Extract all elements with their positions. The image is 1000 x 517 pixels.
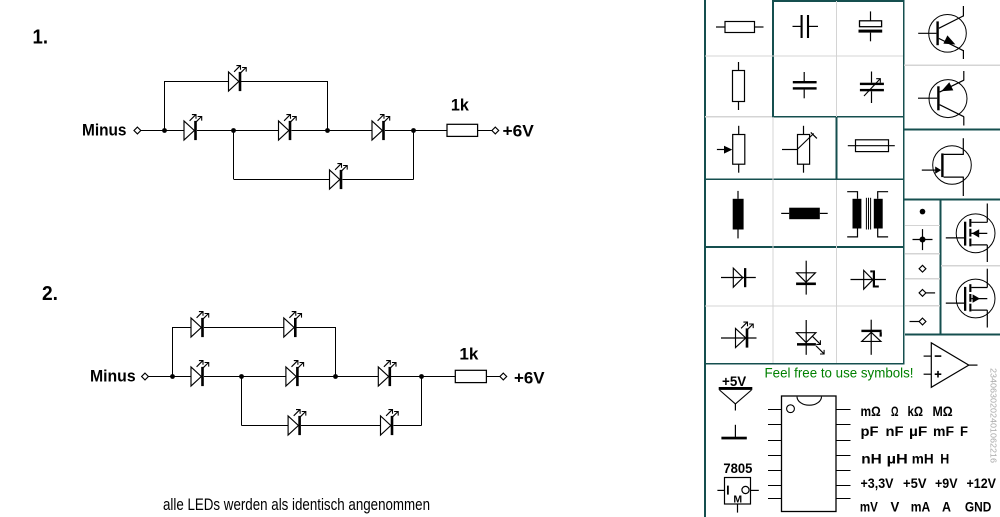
wire node A to LED D2 (165, 130, 185, 132)
node dot symbol (palette small column) (920, 209, 926, 215)
wire top branch segment 1 (173, 327, 192, 329)
svg-text:+5V: +5V (903, 475, 927, 491)
MOSFET N-channel (palette) (946, 204, 995, 263)
svg-text:pF: pF (861, 423, 879, 439)
svg-text:F: F (960, 423, 968, 439)
resistor symbol vertical (palette r2c1) (733, 62, 745, 110)
wire LED D9 to node G (299, 376, 379, 378)
LED D12 (bottom branch right, circuit 2) (381, 410, 399, 436)
IC pins right (836, 410, 850, 499)
terminal with right stub (palette small column) (919, 290, 935, 297)
node G (333, 374, 338, 379)
palette row border y=247 (704, 246, 905, 248)
wire node F down to bottom branch (241, 377, 243, 426)
electrolytic capacitor symbol (palette r1c3) (859, 11, 883, 41)
capacitor symbol vertical (palette r2c2) (793, 72, 817, 98)
wire LED D4 to node D (385, 130, 413, 132)
terminal with left stub (palette small column) (910, 318, 926, 325)
svg-text:GND: GND (965, 499, 992, 515)
wire node A up to top branch (164, 81, 166, 131)
svg-text:1k: 1k (451, 96, 470, 114)
wire top branch right segment (241, 81, 328, 83)
svg-text:MΩ: MΩ (933, 403, 953, 419)
units row 2: pF nF uF mF F (861, 423, 969, 439)
wire bottom branch segment 3 (393, 425, 421, 427)
LED D3 (middle branch center, circuit 1) (279, 115, 297, 141)
svg-text:+12V: +12V (967, 475, 997, 491)
transistor cells border y=129.5 (904, 129, 1000, 131)
svg-text:V: V (891, 499, 900, 515)
svg-text:M: M (733, 494, 742, 506)
LED D11 (bottom branch left, circuit 2) (288, 410, 306, 436)
IC pins left (768, 410, 782, 499)
wire top branch segment 2 (204, 327, 284, 329)
svg-text:mV: mV (860, 499, 879, 515)
resistor R2 1k (circuit 2) (455, 370, 486, 382)
svg-text:mΩ: mΩ (861, 403, 881, 419)
node H (419, 374, 424, 379)
palette row border y=179 (704, 178, 905, 180)
wire top branch down to node G (335, 327, 337, 377)
thyristor diode symbol up (palette r6c3) (861, 320, 881, 355)
node A (162, 128, 167, 133)
svg-text:nH: nH (861, 450, 882, 466)
small symbol column right border (940, 200, 942, 335)
LED D1 (top branch, circuit 1) (229, 66, 247, 92)
svg-text:2.: 2. (42, 283, 58, 305)
LED D10 (middle branch right, circuit 2) (378, 361, 396, 387)
photodiode symbol vertical (palette r6c2) (796, 320, 824, 355)
svg-text:+6V: +6V (514, 369, 545, 387)
node C (231, 128, 236, 133)
capacitor group left border (772, 0, 774, 117)
svg-text:+6V: +6V (503, 122, 534, 140)
svg-text:Ω: Ω (891, 403, 899, 419)
wire bottom branch segment 1 (242, 425, 289, 427)
wire LED D2 to node C (197, 130, 279, 132)
svg-text:Feel free to use symbols!: Feel free to use symbols! (765, 366, 914, 381)
mosfet group bottom border (905, 334, 1000, 336)
svg-text:Minus: Minus (82, 121, 127, 139)
svg-text:1k: 1k (459, 346, 479, 364)
small column separator y=305.7 (905, 305, 940, 307)
node B (325, 128, 330, 133)
LED symbol (palette r6c1) (721, 322, 757, 348)
svg-text:nF: nF (886, 423, 904, 439)
units row 3: nH uH mH H (861, 450, 949, 466)
wire bottom branch up to node D (413, 131, 415, 180)
wire top branch down to node B (327, 81, 329, 131)
inductor symbol horizontal (palette r4c2) (781, 208, 828, 220)
transistor cells border y=199.5 (904, 199, 1000, 201)
photoresistor symbol with arrow (palette r3c1) (717, 126, 745, 173)
grid gray line x=836.5 top (836, 1, 838, 117)
junction cross symbol (palette small column) (913, 229, 933, 250)
LED D4 (middle branch right, circuit 1) (372, 115, 390, 141)
grid gray line y=56 (705, 55, 903, 57)
MOSFET P-channel (palette) (946, 269, 995, 328)
resistor symbol horizontal (palette r1c1) (716, 22, 764, 33)
terminal +6V (circuit 2) (500, 373, 507, 380)
grid gray line x=836.5 lower (836, 180, 838, 363)
svg-text:µH: µH (887, 450, 908, 466)
trimmer resistor symbol (palette r3c2) (782, 126, 817, 173)
node F (239, 374, 244, 379)
palette diode group bottom border (704, 363, 905, 365)
terminal symbol (palette small column) (919, 265, 926, 272)
inductor symbol vertical (palette r4c1) (733, 191, 744, 239)
zener diode symbol vertical (palette r5c2) (796, 261, 816, 295)
wire node H to resistor R2 (422, 376, 456, 378)
palette right column border (903, 0, 905, 364)
diode symbol (palette r5c1) (721, 268, 756, 287)
svg-text:kΩ: kΩ (908, 403, 924, 419)
small column separator y=225.5 (905, 225, 940, 227)
wire minus terminal to node A (141, 130, 165, 132)
units row 5: mV V mA A GND (860, 499, 992, 515)
svg-text:Minus: Minus (90, 367, 136, 385)
grid gray line y=306 (705, 305, 903, 307)
terminal +6V (circuit 1) (492, 127, 499, 134)
units row 4: +3,3V +5V +9V +12V (861, 475, 997, 491)
svg-text:µF: µF (909, 423, 928, 439)
transistor PNP (palette) (918, 71, 967, 126)
svg-text:A: A (942, 499, 951, 515)
node E (170, 374, 175, 379)
op-amp symbol (palette) (924, 343, 978, 388)
fuse symbol (palette r3c3) (848, 140, 895, 152)
grid gray line y=117 left (705, 116, 772, 118)
7805 regulator symbol (palette) (717, 478, 758, 513)
LED D7 (top branch right, circuit 2) (284, 312, 302, 338)
terminal Minus (circuit 1) (134, 127, 141, 134)
svg-text:+5V: +5V (722, 373, 747, 389)
svg-text:1.: 1. (33, 27, 49, 49)
LED D8 (middle branch left, circuit 2) (191, 361, 209, 387)
grid gray line x=773 lower (772, 117, 774, 363)
svg-text:alle LEDs werden als identisch: alle LEDs werden als identisch angenomme… (163, 495, 430, 514)
wire node E to LED D8 (173, 376, 192, 378)
wire LED D3 to node B (291, 130, 372, 132)
wire top branch left segment (165, 81, 229, 83)
ground symbol (palette) (721, 425, 746, 440)
wire resistor R1 to +6V terminal (478, 130, 492, 132)
resistor R1 1k (circuit 1) (447, 124, 478, 136)
wire top branch segment 3 (297, 327, 336, 329)
fuse cell left border (836, 117, 838, 180)
wire LED D10 to node H (391, 376, 421, 378)
transistor N-JFET (palette) (922, 138, 972, 196)
wire bottom branch segment 2 (301, 425, 381, 427)
grid gray line y=265.7 mosfet (941, 265, 1000, 267)
svg-text:2340630202401062216: 2340630202401062216 (989, 368, 999, 463)
svg-text:H: H (940, 450, 949, 466)
transistor NPN (palette) (918, 6, 966, 59)
node D (411, 128, 416, 133)
zener diode symbol horizontal (palette r5c3) (851, 270, 886, 289)
wire bottom branch left segment (234, 179, 330, 181)
wire node D to resistor R1 (413, 130, 447, 132)
svg-text:+3,3V: +3,3V (861, 475, 895, 491)
IC DIP package symbol (palette) (782, 396, 837, 512)
LED D6 (top branch left, circuit 2) (191, 312, 209, 338)
LED D9 (middle branch center, circuit 2) (286, 361, 304, 387)
wire bottom branch right segment (342, 179, 413, 181)
wire resistor R2 to +6V terminal (486, 376, 500, 378)
grid gray line y=65.3 transistor (904, 64, 1000, 66)
units row 1: mOhm Ohm kOhm MOhm (861, 403, 953, 419)
palette left border (704, 0, 706, 517)
wire LED D8 to node F (204, 376, 286, 378)
svg-text:7805: 7805 (723, 461, 752, 476)
terminal Minus (circuit 2) (142, 373, 149, 380)
+5V supply symbol (palette) (719, 387, 753, 411)
svg-text:mA: mA (911, 499, 931, 515)
wire bottom branch up to node H (421, 377, 423, 426)
wire node C down to bottom branch (233, 131, 235, 180)
capacitor symbol (palette r1c2) (793, 15, 819, 38)
svg-text:+9V: +9V (935, 475, 958, 491)
svg-text:mH: mH (912, 450, 934, 466)
svg-text:mF: mF (933, 423, 954, 439)
small column separator y=253.7 (905, 253, 940, 255)
wire node C to LED D3 (233, 130, 279, 132)
capacitor group top border (772, 0, 904, 2)
palette row border y=117 (capacitor group bottom) (772, 116, 905, 118)
wire node E up to top branch (172, 327, 174, 377)
variable capacitor symbol (palette r2c3) (860, 72, 884, 104)
LED D2 (middle branch left, circuit 1) (184, 115, 202, 141)
LED D5 (bottom branch, circuit 1) (330, 164, 348, 190)
wire minus terminal to node E (148, 376, 172, 378)
transformer symbol (palette r4c3) (847, 192, 888, 237)
small column separator y=278.7 (905, 278, 940, 280)
